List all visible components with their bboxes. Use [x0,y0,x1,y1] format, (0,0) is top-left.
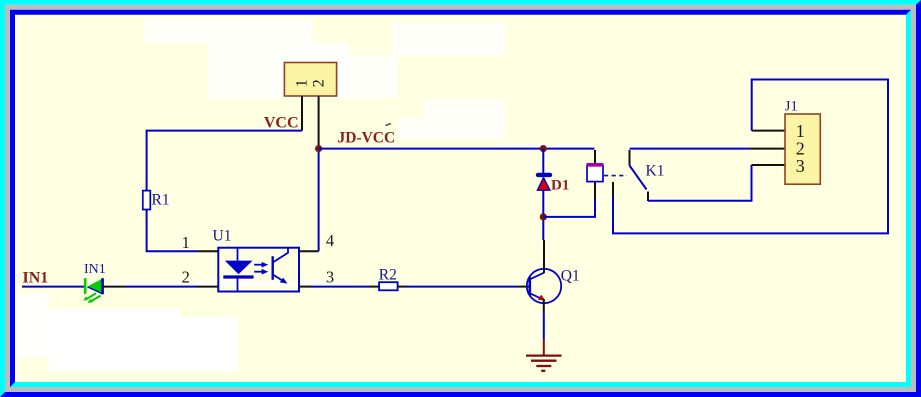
relay link dashed [604,175,627,177]
connector J1 [785,114,820,184]
svg-text:2: 2 [310,79,327,87]
svg-text:K1: K1 [646,162,665,179]
wire D1 anode [542,190,544,214]
wire LED to U1 pin2 [126,286,197,288]
pin P1.2 [318,96,320,150]
diode D1 [537,175,550,190]
svg-text:1: 1 [182,233,190,252]
pin J1.3 [752,164,786,166]
pin U1.2 [197,286,219,288]
pin U1.4 [299,250,319,252]
wire node to relay coil [543,199,595,217]
wire D1 cathode [542,149,544,173]
node JD-VCC at D1 [540,145,547,152]
pin Q1 base [518,286,529,288]
wire VCC to R1 [147,131,302,191]
wire IN1 to LED [22,286,84,288]
pin K1 common [629,150,631,166]
wire Q1 emitter to ground [543,312,545,339]
svg-text:IN1: IN1 [23,270,49,287]
svg-text:D1: D1 [551,177,569,193]
pin LED cathode [103,286,126,288]
optocoupler U1 [218,248,299,292]
wire R2 to Q1 base [406,286,518,288]
switch arm K1 [630,166,647,190]
resistor R1 [143,191,151,210]
pin J1.1 [752,130,785,132]
svg-text:4: 4 [326,231,334,250]
pin Q1 collector [543,240,545,273]
svg-text:U1: U1 [213,227,232,244]
svg-text:1: 1 [294,79,311,87]
LED IN1 [83,278,103,303]
wire K1 NC to J1 pin1 [613,80,888,234]
pin K1 NO contact [647,192,649,202]
wire U1 pin3 to R2 [311,286,370,288]
svg-text:JD-VCC: JD-VCC [338,130,396,147]
pin J1.2 [750,148,785,150]
pin K1 coil top [594,150,596,166]
svg-text:VCC: VCC [264,114,299,131]
svg-text:Q1: Q1 [561,267,580,284]
node below D1 [540,213,547,220]
svg-text:2: 2 [182,268,190,287]
node JD-VCC junction [315,145,322,152]
wire U1 pin4 to JD-VCC node [318,150,320,251]
pin K1 coil bottom [594,182,596,199]
pin R2.2 [398,286,406,288]
wire Q1 collector to node [542,217,544,240]
svg-text:3: 3 [796,156,805,176]
pin K1 NC contact [612,182,614,197]
pin P1.1 [301,96,303,131]
relay coil K1 [587,163,604,182]
pin Q1 emitter [543,299,545,312]
svg-text:R2: R2 [379,266,397,283]
svg-text:R1: R1 [152,192,170,209]
wire K1 NO to J1 pin3 [648,165,752,201]
wire R1 to U1 pin1 [147,210,197,252]
wire JD-VCC [319,148,595,150]
svg-text:IN1: IN1 [84,262,106,277]
svg-text:J1: J1 [785,98,798,114]
resistor R2 [379,282,398,290]
pin U1.3 [299,286,311,288]
connector P1 [284,63,336,97]
transistor Q1 [527,269,561,303]
pin U1.1 [197,250,219,252]
wire K1 common to J1 pin2 [630,148,751,150]
pin R2.1 [370,286,379,288]
ground [526,339,562,371]
svg-text:3: 3 [326,268,334,287]
